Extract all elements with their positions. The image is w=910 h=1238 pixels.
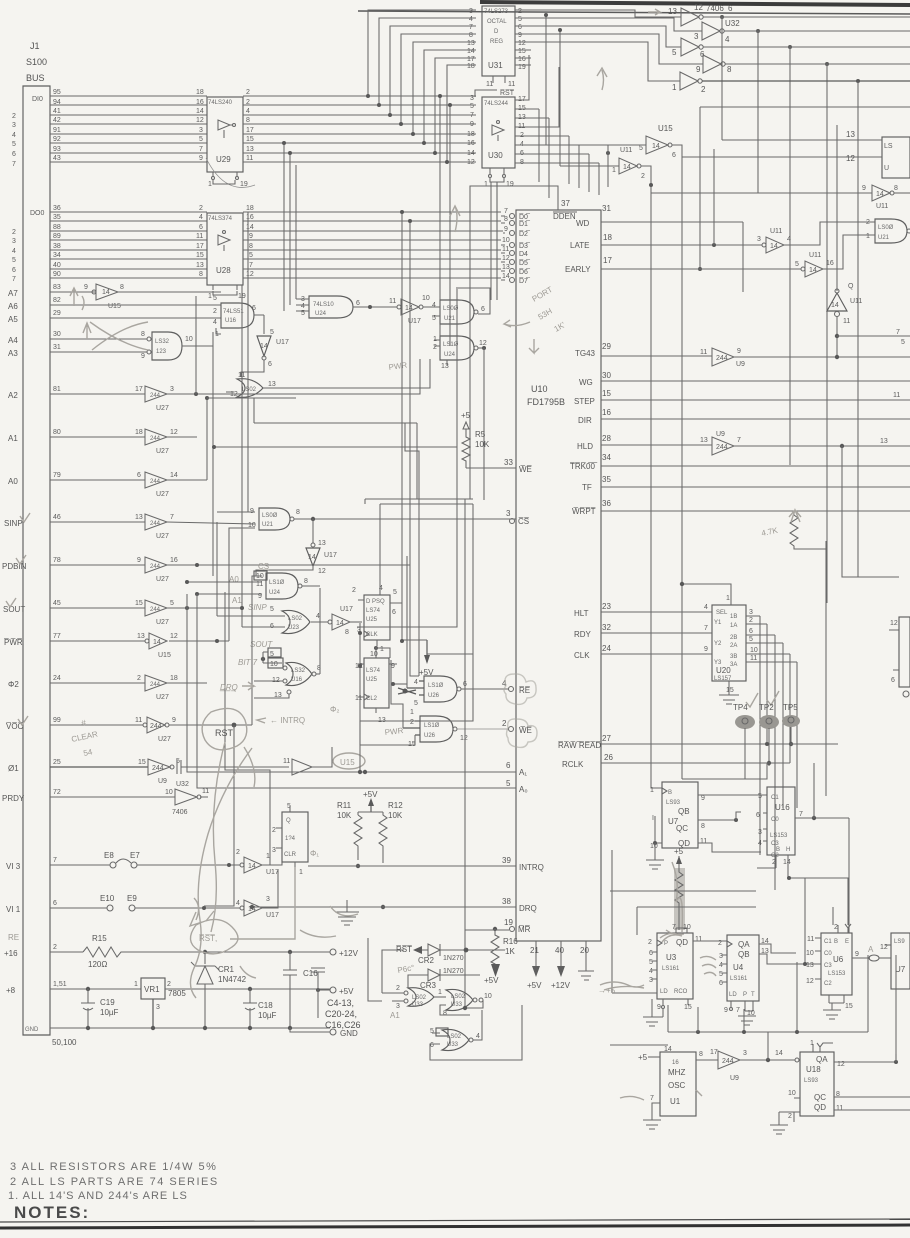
- svg-text:4: 4: [758, 840, 762, 847]
- svg-text:39: 39: [502, 856, 511, 865]
- wire D-in rows to U30: [243, 96, 476, 162]
- svg-text:7: 7: [53, 857, 57, 864]
- wire: [212, 346, 214, 576]
- wire: [229, 528, 255, 641]
- wire: [490, 182, 492, 300]
- GND rail: [50, 1026, 330, 1030]
- svg-text:E10: E10: [100, 894, 115, 903]
- bottom pins 21 40 20: [536, 941, 586, 971]
- svg-text:11: 11: [196, 233, 203, 240]
- svg-text:9: 9: [470, 121, 474, 128]
- resistor R11 10K: [337, 801, 362, 868]
- inverter U11b: [651, 185, 910, 210]
- svg-text:17: 17: [710, 1049, 718, 1056]
- connector pin numbers (address rows): [53, 284, 67, 988]
- svg-text:8: 8: [246, 117, 250, 124]
- svg-text:5: 5: [506, 779, 511, 788]
- inverter U32a 7406: [648, 3, 910, 26]
- ground under U18: [770, 1098, 794, 1134]
- svg-text:QB: QB: [678, 807, 690, 816]
- svg-text:11: 11: [135, 717, 142, 724]
- gate U16c LS32 (BIT7): [238, 588, 321, 699]
- svg-text:23: 23: [602, 602, 611, 611]
- IC U10 FD1795B: [470, 186, 613, 990]
- svg-text:1N270: 1N270: [443, 955, 464, 962]
- svg-text:14: 14: [809, 267, 817, 274]
- inverter U17a: [389, 295, 440, 325]
- wire vertical drops from data-out rows: [721, 17, 723, 140]
- svg-text:NOTES:: NOTES:: [14, 1203, 90, 1222]
- svg-text:2: 2: [410, 719, 414, 726]
- svg-text:80: 80: [53, 429, 61, 436]
- svg-text:12: 12: [318, 568, 326, 575]
- cap list text: [325, 998, 361, 1030]
- svg-text:CR1: CR1: [218, 965, 235, 974]
- svg-text:15: 15: [135, 600, 143, 607]
- svg-text:14: 14: [623, 164, 631, 171]
- svg-text:20: 20: [580, 946, 589, 955]
- svg-text:19: 19: [504, 918, 513, 927]
- svg-text:9: 9: [855, 951, 859, 958]
- svg-text:A: A: [868, 945, 874, 954]
- svg-text:QD: QD: [676, 938, 688, 947]
- svg-text:77: 77: [53, 633, 61, 640]
- node A0 wire: [197, 565, 516, 788]
- svg-text:6: 6: [12, 151, 16, 158]
- svg-text:1: 1: [612, 167, 616, 174]
- svg-text:OCTAL: OCTAL: [487, 19, 507, 25]
- svg-text:37: 37: [561, 199, 570, 208]
- svg-text:TG43: TG43: [575, 349, 596, 358]
- svg-text:12: 12: [479, 340, 487, 347]
- svg-text:LS161: LS161: [730, 976, 748, 982]
- svg-text:29: 29: [602, 342, 611, 351]
- svg-text:3: 3: [266, 896, 270, 903]
- svg-text:BUS: BUS: [26, 73, 45, 83]
- svg-text:U16: U16: [291, 677, 303, 683]
- svg-text:2: 2: [137, 675, 141, 682]
- svg-text:5: 5: [249, 252, 253, 259]
- svg-text:3B: 3B: [730, 654, 737, 660]
- svg-text:81: 81: [53, 386, 61, 393]
- wire staircase to counters: [610, 742, 848, 993]
- svg-text:B: B: [776, 847, 780, 853]
- svg-text:U28: U28: [216, 266, 231, 275]
- svg-text:8: 8: [504, 216, 508, 223]
- svg-text:12: 12: [502, 255, 510, 262]
- svg-text:+12V: +12V: [551, 981, 571, 990]
- svg-text:2: 2: [502, 719, 507, 728]
- svg-text:8: 8: [894, 185, 898, 192]
- svg-text:24: 24: [602, 644, 611, 653]
- svg-text:2: 2: [352, 587, 356, 594]
- svg-text:U20: U20: [716, 666, 731, 675]
- mux U6 LS153: [806, 924, 879, 1010]
- svg-text:17: 17: [467, 56, 475, 63]
- svg-text:17: 17: [246, 127, 254, 134]
- svg-text:U30: U30: [488, 151, 503, 160]
- svg-text:3: 3: [12, 238, 16, 245]
- svg-text:5: 5: [639, 145, 643, 152]
- notes text: [8, 1161, 219, 1222]
- svg-text:1B: 1B: [730, 614, 737, 620]
- svg-text:C0: C0: [771, 817, 779, 823]
- svg-text:10µF: 10µF: [258, 1011, 277, 1020]
- svg-text:6: 6: [749, 628, 753, 635]
- svg-text:2B: 2B: [730, 635, 737, 641]
- svg-text:6: 6: [728, 4, 733, 13]
- svg-text:+8: +8: [6, 986, 16, 995]
- wire: [393, 683, 407, 685]
- svg-text:A3: A3: [8, 349, 18, 358]
- svg-text:RE: RE: [8, 933, 19, 942]
- svg-text:U15: U15: [658, 124, 673, 133]
- svg-text:8: 8: [699, 1051, 703, 1058]
- svg-text:29: 29: [53, 310, 61, 317]
- DO bus rows pins 36,35,88,89,38,34,40,90: [12, 205, 207, 283]
- svg-text:U9: U9: [736, 361, 745, 368]
- gate U26a LS10 (RE): [407, 674, 536, 707]
- svg-text:13: 13: [846, 130, 855, 139]
- svg-text:12: 12: [890, 620, 898, 627]
- gate U33a LS02: [390, 985, 446, 1020]
- inverter U17c: [328, 606, 362, 636]
- svg-text:REG: REG: [490, 39, 503, 45]
- gate U23c LS02 (SINP): [217, 603, 328, 649]
- latch U28 74LS374: [207, 205, 503, 300]
- svg-text:5: 5: [12, 257, 16, 264]
- svg-text:8: 8: [249, 243, 253, 250]
- svg-text:11: 11: [700, 838, 707, 845]
- svg-text:45: 45: [53, 600, 61, 607]
- svg-text:30: 30: [602, 371, 611, 380]
- svg-text:U26: U26: [428, 693, 440, 699]
- svg-text:10µF: 10µF: [100, 1008, 119, 1017]
- svg-text:DRQ: DRQ: [519, 904, 537, 913]
- svg-text:A6: A6: [8, 302, 18, 311]
- A1 row + buffer U27: [50, 429, 197, 455]
- svg-text:15: 15: [726, 687, 734, 694]
- svg-text:1: 1: [650, 787, 654, 794]
- svg-text:7: 7: [199, 146, 203, 153]
- svg-text:D PSQ: D PSQ: [366, 599, 385, 605]
- svg-text:→+5: →+5: [598, 986, 616, 995]
- svg-text:4: 4: [787, 236, 791, 243]
- svg-text:14: 14: [153, 639, 161, 646]
- svg-text:U11: U11: [876, 203, 888, 210]
- wire: [449, 105, 451, 346]
- svg-text:U15: U15: [340, 758, 355, 767]
- svg-text:4: 4: [12, 248, 16, 255]
- svg-text:5: 5: [270, 606, 274, 613]
- svg-text:14: 14: [876, 191, 884, 198]
- svg-text:VI 3: VI 3: [6, 862, 21, 871]
- svg-text:244: 244: [150, 479, 161, 485]
- svg-text:5: 5: [12, 141, 16, 148]
- svg-text:TF: TF: [582, 483, 592, 492]
- svg-text:C16: C16: [303, 969, 318, 978]
- svg-text:RDY: RDY: [574, 630, 592, 639]
- svg-text:18: 18: [467, 131, 475, 138]
- svg-text:STEP: STEP: [574, 397, 595, 406]
- svg-text:13: 13: [668, 7, 677, 16]
- svg-text:U31: U31: [488, 61, 503, 70]
- wire: [283, 143, 285, 311]
- svg-text:10K: 10K: [337, 811, 352, 820]
- capacitor C19 10uF: [81, 989, 119, 1028]
- svg-text:7: 7: [504, 208, 508, 215]
- svg-text:I: I: [652, 815, 654, 822]
- svg-text:3: 3: [719, 953, 723, 960]
- svg-text:2: 2: [12, 229, 16, 236]
- svg-text:RST: RST: [215, 728, 234, 738]
- svg-text:36: 36: [53, 205, 61, 212]
- svg-text:U9: U9: [158, 778, 167, 785]
- svg-text:RCLK: RCLK: [562, 760, 584, 769]
- svg-text:U23: U23: [288, 625, 300, 631]
- svg-text:34: 34: [53, 252, 61, 259]
- svg-text:+5: +5: [638, 1053, 648, 1062]
- svg-text:34: 34: [602, 453, 611, 462]
- svg-text:14: 14: [248, 863, 256, 870]
- svg-text:74LS51: 74LS51: [223, 309, 244, 315]
- svg-text:U11: U11: [620, 147, 632, 154]
- svg-text:3: 3: [749, 609, 753, 616]
- svg-text:8: 8: [120, 284, 124, 291]
- svg-text:1: 1: [208, 181, 212, 188]
- svg-text:90: 90: [53, 271, 61, 278]
- svg-text:W̅E̅: W̅E̅: [519, 465, 532, 474]
- mux U20 LS157: [601, 582, 797, 890]
- wire: [398, 688, 416, 694]
- resistor R5 10K pullup to WE: [461, 411, 516, 468]
- svg-text:17: 17: [135, 386, 143, 393]
- svg-text:10: 10: [502, 237, 510, 244]
- svg-text:3A: 3A: [730, 662, 737, 668]
- svg-text:LS93: LS93: [666, 800, 681, 806]
- svg-text:9: 9: [862, 185, 866, 192]
- svg-text:CR2: CR2: [418, 956, 435, 965]
- flip-flop U25a LS74: [352, 585, 402, 653]
- svg-text:LS93: LS93: [804, 1078, 819, 1084]
- svg-text:99: 99: [53, 717, 61, 724]
- svg-text:5: 5: [270, 329, 274, 336]
- svg-text:16: 16: [826, 260, 834, 267]
- svg-text:2: 2: [12, 113, 16, 120]
- svg-text:3: 3: [758, 829, 762, 836]
- svg-text:U: U: [884, 165, 889, 172]
- svg-text:2: 2: [396, 985, 400, 992]
- svg-text:2: 2: [834, 924, 838, 931]
- svg-text:U15: U15: [108, 303, 121, 310]
- svg-text:1: 1: [438, 989, 442, 996]
- wire: [254, 398, 417, 499]
- svg-text:INTRQ: INTRQ: [519, 863, 544, 872]
- svg-text:D̲R̲Q̲: D̲R̲Q̲: [219, 683, 238, 692]
- svg-text:6: 6: [137, 472, 141, 479]
- PRDY row + inverter U32 7406: [50, 781, 209, 816]
- wire bottom bus: [610, 955, 868, 1045]
- svg-text:14: 14: [196, 108, 204, 115]
- svg-text:LD: LD: [729, 992, 737, 998]
- svg-text:25: 25: [53, 759, 61, 766]
- svg-text:8: 8: [296, 509, 300, 516]
- svg-text:2: 2: [236, 849, 240, 856]
- svg-text:13: 13: [502, 264, 510, 271]
- svg-text:74LS244: 74LS244: [484, 101, 509, 107]
- svg-text:5: 5: [795, 261, 799, 268]
- svg-text:12: 12: [460, 735, 468, 742]
- node DRQ wire: [250, 905, 516, 909]
- svg-text:3: 3: [743, 1050, 747, 1057]
- wire: [439, 96, 441, 340]
- svg-text:LS153: LS153: [828, 971, 846, 977]
- zener CR1 1N4742: [191, 952, 247, 1028]
- inverter U11a: [558, 28, 662, 788]
- inverter U32e: [672, 72, 910, 94]
- svg-text:3: 3: [506, 509, 511, 518]
- svg-text:+5: +5: [461, 411, 471, 420]
- svg-text:4: 4: [725, 35, 730, 44]
- svg-text:+5: +5: [674, 847, 684, 856]
- SOUT row + buffer U27: [50, 600, 242, 626]
- svg-text:14: 14: [246, 224, 254, 231]
- svg-text:9: 9: [137, 557, 141, 564]
- svg-text:14: 14: [502, 273, 510, 280]
- svg-text:C19: C19: [100, 998, 115, 1007]
- svg-text:LS9: LS9: [894, 939, 905, 945]
- svg-text:U27: U27: [158, 736, 171, 743]
- svg-text:7: 7: [12, 161, 16, 168]
- svg-text:2: 2: [749, 617, 753, 624]
- wire TF row: [601, 486, 910, 488]
- svg-text:HLD: HLD: [577, 442, 593, 451]
- svg-text:R̅A̅W̅ ̅R̅E̅A̅D̅: R̅A̅W̅ ̅R̅E̅A̅D̅: [558, 741, 602, 750]
- svg-text:11: 11: [246, 155, 253, 162]
- svg-text:244: 244: [150, 564, 161, 570]
- gate U24a 74LS10: [296, 296, 397, 318]
- resistor R12 10K: [379, 801, 403, 909]
- PWR row + inverter U15: [50, 633, 229, 659]
- ground under U20: [719, 695, 739, 704]
- svg-text:LS32: LS32: [291, 668, 306, 674]
- svg-text:1. ALL 14'S AND 244's ARE LS: 1. ALL 14'S AND 244's ARE LS: [8, 1190, 188, 1202]
- svg-text:4: 4: [704, 604, 708, 611]
- svg-text:E9: E9: [127, 894, 137, 903]
- PHI1 row + buffer U9: [50, 747, 332, 785]
- svg-text:LS74: LS74: [366, 608, 381, 614]
- gate U24b LS10: [433, 336, 487, 500]
- svg-text:T: T: [751, 992, 755, 998]
- svg-text:VI 1: VI 1: [6, 905, 21, 914]
- svg-text:8: 8: [345, 629, 349, 636]
- gate U33b LS02: [440, 989, 492, 1017]
- svg-text:U32: U32: [725, 19, 740, 28]
- svg-text:4: 4: [246, 108, 250, 115]
- svg-text:A5: A5: [8, 315, 18, 324]
- svg-text:CLK: CLK: [574, 651, 590, 660]
- svg-text:2A: 2A: [730, 643, 737, 649]
- svg-text:U24: U24: [444, 352, 456, 358]
- gate U33c LS02: [430, 1005, 522, 1060]
- svg-text:GND: GND: [25, 1027, 39, 1033]
- svg-text:WG: WG: [579, 378, 593, 387]
- svg-text:7: 7: [704, 625, 708, 632]
- svg-text:U25: U25: [366, 677, 378, 683]
- +5V arrow between R11 R12: [358, 790, 383, 812]
- svg-text:2 ALL LS PARTS ARE 74 SERIE: 2 ALL LS PARTS ARE 74 SERIES: [10, 1176, 219, 1188]
- svg-text:16: 16: [196, 99, 204, 106]
- svg-text:M̅R̅: M̅R̅: [518, 925, 531, 934]
- svg-text:U24: U24: [315, 311, 327, 317]
- svg-text:U21: U21: [878, 235, 890, 241]
- svg-text:U6: U6: [833, 955, 844, 964]
- svg-text:2: 2: [788, 1113, 792, 1120]
- svg-text:19: 19: [506, 181, 514, 188]
- DI bus rows pins 95,94,41,42,91,92,93,43: [12, 89, 207, 168]
- svg-text:10: 10: [270, 661, 278, 668]
- pencil arrow up near U29: [70, 288, 84, 310]
- svg-text:U33: U33: [451, 1002, 463, 1008]
- svg-text:88: 88: [53, 224, 61, 231]
- svg-text:15: 15: [845, 1003, 853, 1010]
- svg-text:16: 16: [518, 56, 526, 63]
- svg-text:U11: U11: [770, 228, 782, 235]
- svg-text:12: 12: [246, 271, 254, 278]
- svg-text:C̲S̲: C̲S̲: [258, 562, 270, 571]
- svg-text:Y2: Y2: [714, 641, 722, 647]
- svg-text:6: 6: [252, 305, 256, 312]
- svg-text:SOUT: SOUT: [3, 605, 25, 614]
- ground under U1: [643, 1120, 661, 1129]
- svg-text:2: 2: [272, 827, 276, 834]
- svg-text:18: 18: [246, 205, 254, 212]
- inverter U17b (down) to CS: [256, 519, 337, 576]
- wire DO rows to U10 data pins: [243, 212, 503, 278]
- svg-text:6: 6: [199, 224, 203, 231]
- svg-text:8: 8: [469, 32, 473, 39]
- svg-text:6: 6: [891, 677, 895, 684]
- gate U21b LS00 (CS): [217, 508, 516, 530]
- svg-text:QA: QA: [816, 1055, 828, 1064]
- svg-text:9: 9: [701, 795, 705, 802]
- svg-text:LS1Ø: LS1Ø: [424, 723, 440, 729]
- svg-text:SINP: SINP: [4, 519, 23, 528]
- svg-text:W̅R̅P̅T̅: W̅R̅P̅T̅: [572, 507, 596, 516]
- A0 row + buffer U27: [50, 472, 207, 498]
- pencil CLEAR 54: [71, 718, 99, 758]
- svg-text:U27: U27: [156, 491, 169, 498]
- pencil RST bottom circled: [190, 867, 295, 954]
- wire DI rows: [50, 96, 207, 162]
- gate U26b LS10 (WE): [384, 709, 537, 748]
- U31 outputs to top-right inverters: [515, 10, 860, 603]
- wire: [365, 499, 473, 504]
- svg-text:9: 9: [249, 233, 253, 240]
- svg-text:LS1Ø: LS1Ø: [443, 342, 459, 348]
- svg-text:7406: 7406: [172, 809, 188, 816]
- svg-text:DIR: DIR: [578, 416, 592, 425]
- svg-text:9: 9: [504, 226, 508, 233]
- svg-text:A1: A1: [8, 434, 18, 443]
- svg-text:CL2: CL2: [366, 696, 378, 702]
- data pins D0-D7: [501, 208, 531, 285]
- svg-text:TP5: TP5: [783, 703, 798, 712]
- svg-text:12: 12: [196, 117, 204, 124]
- svg-text:U32: U32: [176, 781, 189, 788]
- svg-text:3: 3: [396, 1003, 400, 1010]
- svg-text:74LS273: 74LS273: [484, 9, 509, 15]
